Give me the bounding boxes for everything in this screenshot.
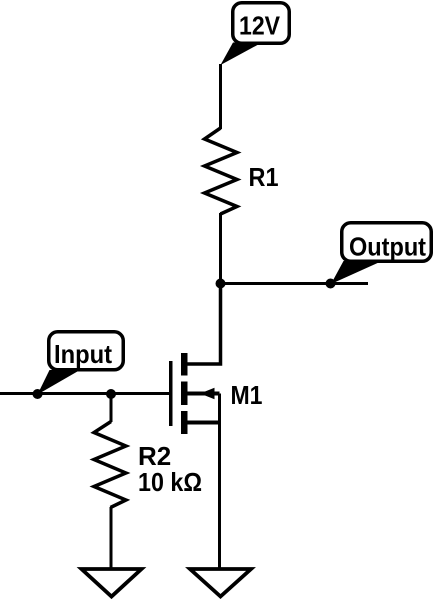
svg-text:Input: Input (54, 339, 112, 369)
net label Input (callout box) (38, 332, 124, 395)
wire: input line / gate lead (0, 392, 169, 395)
power net label 12V (callout box) (221, 3, 290, 65)
svg-text:R1: R1 (249, 162, 279, 192)
net label Output (callout box) (331, 223, 431, 284)
resistor R1 (205, 128, 238, 214)
transistor M1 channel segment (drain) (181, 353, 188, 376)
transistor M1 body stub with arrow (187, 392, 220, 396)
wire: R2 bottom to ground (110, 507, 113, 569)
svg-text:Output: Output (349, 232, 426, 262)
junction: drain/R1/output node (216, 279, 226, 289)
transistor M1 channel segment (body) (181, 382, 188, 406)
ground (source side) (190, 569, 251, 597)
wire: R2 tap down to R2 (110, 394, 113, 422)
transistor M1 channel segment (source) (181, 411, 188, 434)
svg-text:M1: M1 (231, 380, 263, 410)
wire: R1 bottom to output node (219, 213, 222, 285)
wire: source vertical down to ground (218, 394, 221, 570)
resistor R2 (94, 422, 126, 508)
node: input probe point (33, 389, 43, 399)
transistor M1 source stub (187, 421, 220, 425)
wire: 12V supply lead down to R1 (219, 64, 222, 129)
node: output probe point (326, 279, 336, 289)
svg-text:12V: 12V (239, 11, 281, 41)
wire: output node down to drain (187, 284, 221, 364)
wire: output horizontal (221, 282, 369, 285)
transistor M1 gate bar (169, 361, 173, 426)
junction: R2 tap on input line (106, 389, 116, 399)
svg-text:10 kΩ: 10 kΩ (138, 467, 202, 497)
ground (R2 side) (82, 569, 142, 597)
